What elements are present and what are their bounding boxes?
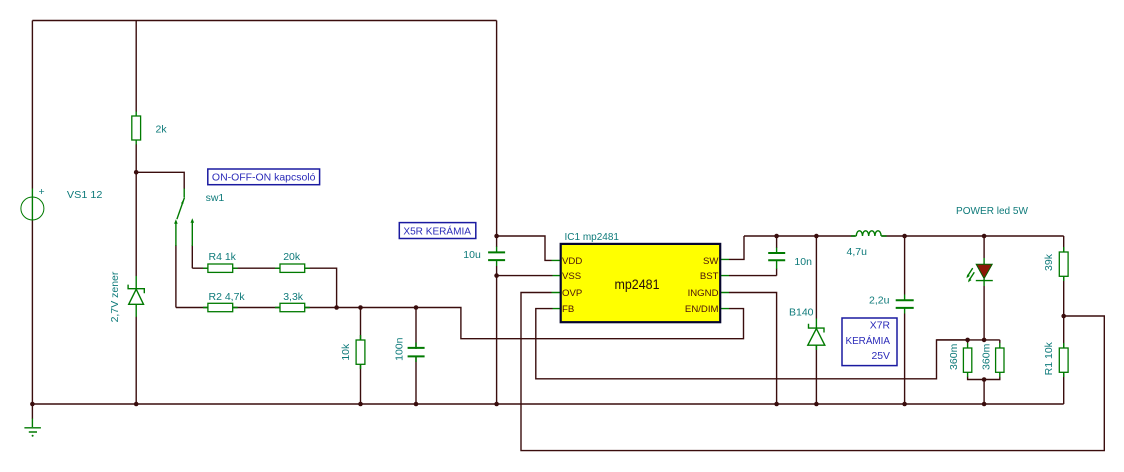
svg-text:3,3k: 3,3k <box>283 291 304 303</box>
svg-text:X7R: X7R <box>870 320 891 331</box>
svg-text:OVP: OVP <box>562 288 582 299</box>
svg-text:SW: SW <box>703 256 719 267</box>
svg-text:10n: 10n <box>794 256 812 268</box>
svg-text:VS1 12: VS1 12 <box>67 189 103 201</box>
svg-text:sw1: sw1 <box>206 192 225 204</box>
svg-text:10k: 10k <box>340 343 352 361</box>
svg-text:39k: 39k <box>1043 253 1055 271</box>
svg-text:2,2u: 2,2u <box>869 294 890 306</box>
svg-text:25V: 25V <box>872 351 891 362</box>
svg-text:4,7u: 4,7u <box>847 246 868 258</box>
svg-text:POWER led 5W: POWER led 5W <box>956 205 1028 217</box>
svg-text:100n: 100n <box>393 337 405 361</box>
svg-text:2k: 2k <box>156 124 168 136</box>
svg-text:X5R KERÁMIA: X5R KERÁMIA <box>403 225 471 238</box>
svg-text:B140: B140 <box>789 307 814 319</box>
svg-text:ON-OFF-ON kapcsoló: ON-OFF-ON kapcsoló <box>212 173 316 184</box>
svg-text:360m: 360m <box>948 343 960 370</box>
svg-text:VDD: VDD <box>562 256 582 267</box>
svg-text:2,7V zener: 2,7V zener <box>109 271 121 322</box>
svg-text:EN/DIM: EN/DIM <box>685 304 719 315</box>
svg-text:BST: BST <box>700 271 719 282</box>
svg-text:+: + <box>39 186 45 198</box>
svg-text:VSS: VSS <box>562 271 581 282</box>
svg-text:10u: 10u <box>463 249 481 261</box>
svg-text:R2 4,7k: R2 4,7k <box>209 291 246 303</box>
svg-text:INGND: INGND <box>688 288 719 299</box>
svg-text:R4 1k: R4 1k <box>209 251 237 263</box>
svg-text:IC1 mp2481: IC1 mp2481 <box>565 231 620 243</box>
svg-text:mp2481: mp2481 <box>615 276 660 292</box>
svg-text:20k: 20k <box>283 251 301 263</box>
svg-text:R1 10k: R1 10k <box>1043 341 1055 375</box>
svg-text:360m: 360m <box>980 343 992 370</box>
svg-text:FB: FB <box>562 304 574 315</box>
svg-text:KERÁMIA: KERÁMIA <box>846 334 891 347</box>
